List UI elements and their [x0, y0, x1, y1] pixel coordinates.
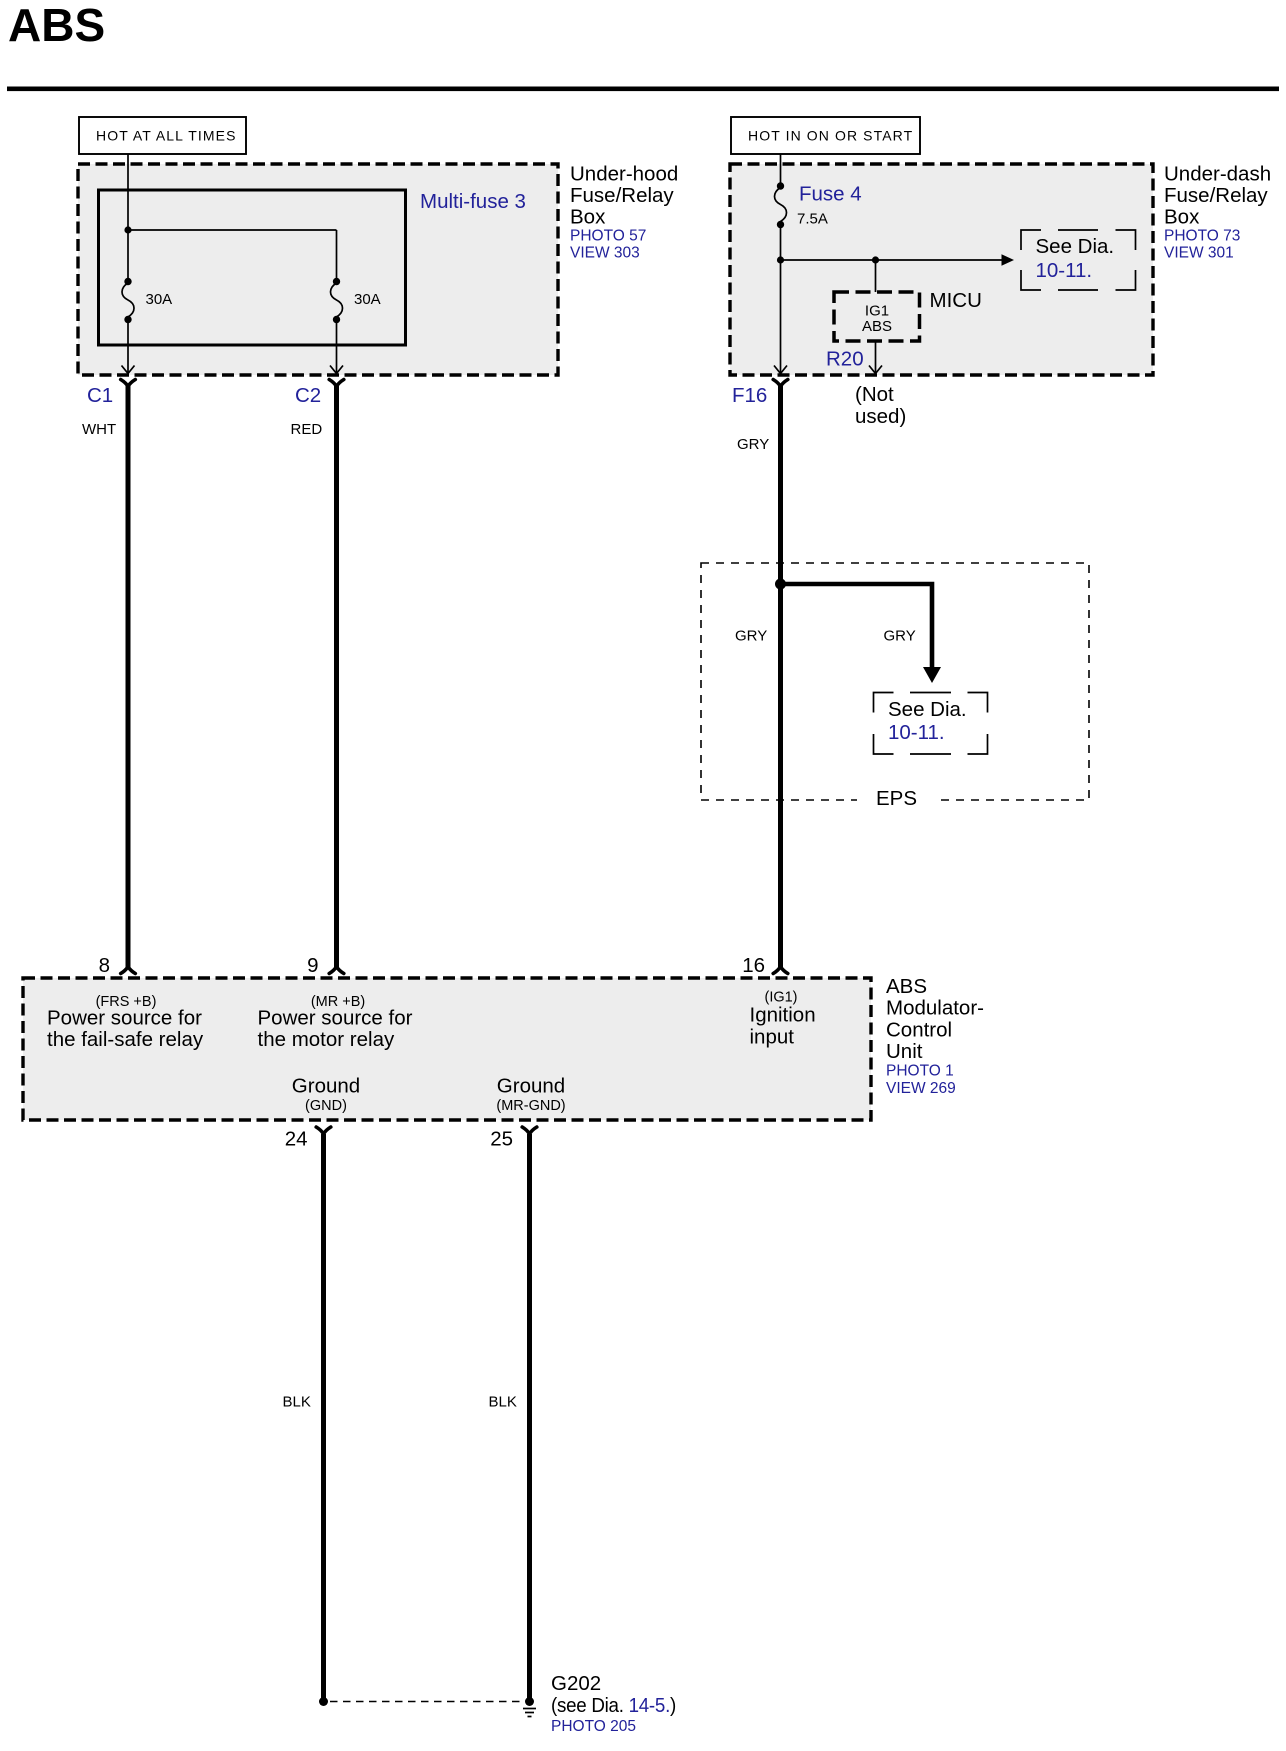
svg-text:Power source for: Power source for: [47, 1007, 202, 1030]
svg-text:24: 24: [285, 1128, 308, 1151]
svg-text:EPS: EPS: [876, 787, 917, 810]
svg-text:RED: RED: [291, 421, 323, 438]
svg-text:7.5A: 7.5A: [797, 211, 828, 228]
svg-text:GRY: GRY: [884, 628, 916, 645]
svg-text:C1: C1: [87, 384, 113, 407]
node G202 right terminal: [525, 1697, 534, 1706]
svg-text:PHOTO 57: PHOTO 57: [570, 228, 646, 245]
svg-text:30A: 30A: [146, 291, 173, 308]
svg-text:IG1: IG1: [865, 303, 889, 320]
svg-text:Ground: Ground: [292, 1075, 360, 1098]
svg-text:Control: Control: [886, 1019, 952, 1042]
svg-text:10-11.: 10-11.: [1036, 259, 1093, 282]
svg-text:PHOTO 205: PHOTO 205: [551, 1718, 636, 1735]
svg-text:the motor relay: the motor relay: [258, 1028, 395, 1051]
svg-text:MICU: MICU: [930, 289, 982, 312]
under-hood fuse/relay box (dashed): [78, 164, 558, 375]
svg-text:R20: R20: [826, 348, 864, 371]
ground symbol G202: [523, 1709, 536, 1717]
svg-text:PHOTO 73: PHOTO 73: [1164, 228, 1240, 245]
box caption ABS Modulator-Control Unit: [886, 975, 984, 1097]
label HOT AT ALL TIMES: [79, 117, 246, 154]
svg-text:WHT: WHT: [82, 421, 116, 438]
svg-text:25: 25: [490, 1128, 513, 1151]
wire to MICU: [875, 260, 877, 292]
svg-text:Multi-fuse 3: Multi-fuse 3: [420, 190, 526, 213]
svg-text:ABS: ABS: [8, 0, 105, 51]
svg-text:(Not: (Not: [855, 383, 894, 406]
connector C1: [87, 380, 135, 408]
svg-text:ABS: ABS: [886, 975, 927, 998]
under-dash fuse/relay box (dashed): [730, 164, 1153, 375]
pin function fail-safe relay: [47, 1007, 204, 1052]
svg-text:16: 16: [742, 954, 765, 977]
label HOT IN ON OR START: [731, 117, 920, 154]
svg-text:VIEW 301: VIEW 301: [1164, 245, 1234, 262]
svg-text:Fuse/Relay: Fuse/Relay: [1164, 184, 1268, 207]
svg-text:Modulator-: Modulator-: [886, 997, 984, 1020]
wire pin 25 to G202: [527, 1134, 532, 1699]
svg-text:(GND): (GND): [305, 1098, 347, 1114]
svg-text:GRY: GRY: [737, 436, 769, 453]
connector pin 24: [285, 1127, 331, 1151]
connector pin 25: [490, 1127, 537, 1151]
svg-text:(MR-GND): (MR-GND): [496, 1098, 565, 1114]
pin function ground MR-GND: [496, 1075, 565, 1115]
fuse 30A right: [331, 278, 343, 323]
connector pin 16: [742, 954, 788, 977]
svg-text:Fuse/Relay: Fuse/Relay: [570, 184, 674, 207]
svg-text:BLK: BLK: [283, 1394, 311, 1411]
svg-text:VIEW 269: VIEW 269: [886, 1080, 956, 1097]
note (Not used): [855, 383, 906, 428]
svg-text:F16: F16: [732, 384, 767, 407]
gap for EPS label: [857, 790, 937, 810]
svg-text:GRY: GRY: [735, 628, 767, 645]
wire C2 feed: [336, 230, 338, 281]
connector C2: [295, 380, 344, 408]
connector pin 9: [307, 954, 344, 977]
pin function motor relay: [258, 1007, 413, 1052]
node junction: [124, 226, 131, 233]
svg-text:9: 9: [307, 954, 318, 977]
EPS dashed box: [701, 563, 1089, 800]
node junction on F16 wire: [777, 256, 784, 263]
wire C2 to box edge: [330, 320, 343, 374]
svg-text:Box: Box: [570, 206, 606, 229]
ABS modulator-control unit box (dashed): [23, 978, 871, 1120]
svg-text:VIEW 303: VIEW 303: [570, 245, 640, 262]
pin function ground GND: [292, 1075, 360, 1115]
wire C2 to pin 9: [334, 386, 339, 968]
svg-text:ABS: ABS: [862, 318, 892, 335]
see dia 10-11 reference box EPS: [874, 693, 988, 755]
svg-text:HOT IN ON OR START: HOT IN ON OR START: [748, 128, 913, 144]
svg-text:the fail-safe relay: the fail-safe relay: [47, 1028, 204, 1051]
wire R20 to box edge: [869, 341, 882, 374]
box caption Under-hood Fuse/Relay Box: [570, 163, 678, 262]
svg-text:See Dia.: See Dia.: [888, 698, 967, 721]
wire F16 to box edge: [774, 225, 787, 374]
svg-text:8: 8: [99, 954, 110, 977]
wire branch to See Dia: [781, 254, 1015, 266]
svg-text:Box: Box: [1164, 206, 1200, 229]
svg-text:(see Dia. 14-5.): (see Dia. 14-5.): [551, 1694, 676, 1717]
svg-text:Under-dash: Under-dash: [1164, 163, 1271, 186]
connector pin 8: [99, 954, 136, 977]
pin function ignition input: [750, 1004, 816, 1049]
wire C1 to pin 8: [126, 386, 131, 968]
wire C1 to box edge: [122, 320, 135, 374]
see dia 10-11 reference box: [1021, 230, 1136, 290]
wire link: [128, 229, 337, 231]
wire dashed ground link: [330, 1701, 522, 1703]
fuse 4: [775, 182, 787, 228]
svg-text:Under-hood: Under-hood: [570, 163, 678, 186]
node junction in EPS: [775, 579, 786, 590]
MICU IG1 ABS box: [834, 292, 920, 341]
svg-text:C2: C2: [295, 384, 321, 407]
svg-text:Fuse 4: Fuse 4: [799, 183, 862, 206]
box caption Under-dash Fuse/Relay Box: [1164, 163, 1271, 262]
svg-text:BLK: BLK: [489, 1394, 517, 1411]
svg-text:Unit: Unit: [886, 1040, 923, 1063]
node G202 left terminal: [319, 1697, 328, 1706]
svg-text:Ignition: Ignition: [750, 1004, 816, 1027]
wire C1 feed: [127, 154, 129, 281]
svg-text:used): used): [855, 405, 906, 428]
svg-text:Ground: Ground: [497, 1075, 565, 1098]
svg-text:G202: G202: [551, 1672, 601, 1695]
ground label G202: [551, 1672, 676, 1735]
svg-text:30A: 30A: [354, 291, 381, 308]
wire F16 to pin 16: [778, 386, 783, 968]
svg-text:10-11.: 10-11.: [888, 721, 945, 744]
svg-text:HOT AT ALL TIMES: HOT AT ALL TIMES: [96, 128, 237, 144]
title rule: [7, 87, 1279, 92]
svg-text:PHOTO 1: PHOTO 1: [886, 1063, 954, 1080]
wire F16 feed: [780, 154, 782, 186]
svg-text:input: input: [750, 1026, 795, 1049]
svg-text:Power source for: Power source for: [258, 1007, 413, 1030]
connector F16: [732, 380, 788, 408]
svg-text:See Dia.: See Dia.: [1036, 235, 1115, 258]
node junction above MICU: [872, 256, 879, 263]
fuse 30A left: [122, 278, 134, 323]
wire pin 24 to G202: [321, 1134, 326, 1699]
multi-fuse 3 internal box: [99, 190, 406, 345]
wire branch to EPS See Dia: [781, 584, 942, 683]
